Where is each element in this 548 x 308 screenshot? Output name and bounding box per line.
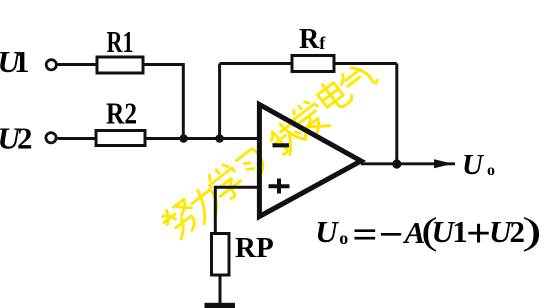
- op-amp minus sign: [273, 143, 290, 147]
- wire R2 to op-amp inverting input: [145, 137, 261, 140]
- junction Rf node: [215, 134, 224, 143]
- terminal U2: [46, 133, 56, 143]
- wire non-inverting input to RP: [215, 187, 261, 233]
- svg-text:=: =: [352, 213, 377, 255]
- svg-text:R1: R1: [107, 24, 134, 59]
- op-amp triangle: [259, 105, 361, 217]
- svg-text:Rf: Rf: [299, 24, 326, 55]
- svg-text:U: U: [462, 149, 485, 181]
- op-amp plus sign: [269, 179, 290, 194]
- resistor R2: [96, 131, 145, 146]
- wire RP to ground: [219, 275, 222, 304]
- terminal U1: [46, 60, 56, 70]
- output arrowhead: [434, 159, 453, 168]
- wire U2 terminal to R2: [58, 137, 97, 140]
- wire U1 terminal to R1: [58, 63, 98, 66]
- wire top feedback: [220, 62, 397, 65]
- svg-text:): ): [522, 210, 542, 252]
- resistor R1: [97, 57, 143, 73]
- svg-text:o: o: [487, 162, 495, 179]
- junction summing node: [179, 134, 188, 143]
- svg-text:o: o: [339, 228, 348, 248]
- junction output node: [392, 159, 401, 168]
- svg-text:U: U: [315, 214, 339, 249]
- svg-text:U1: U1: [0, 44, 30, 79]
- svg-text:RP: RP: [235, 232, 274, 264]
- watermark: yellow diagonal text 努力学习 我爱电气: [159, 60, 378, 241]
- svg-text:R2: R2: [106, 96, 137, 131]
- wire Rf left leg: [218, 64, 221, 139]
- resistor RP: [212, 234, 230, 276]
- formula Uo = -A(U1+U2): [315, 210, 541, 256]
- wire output: [361, 162, 455, 165]
- wire Rf right leg: [395, 64, 398, 165]
- wire R1 to corner down to node: [143, 65, 183, 139]
- ground: [205, 303, 236, 308]
- svg-text:−: −: [379, 214, 404, 256]
- svg-text:U2: U2: [0, 120, 33, 155]
- svg-text:+: +: [466, 212, 491, 256]
- resistor Rf: [292, 56, 334, 72]
